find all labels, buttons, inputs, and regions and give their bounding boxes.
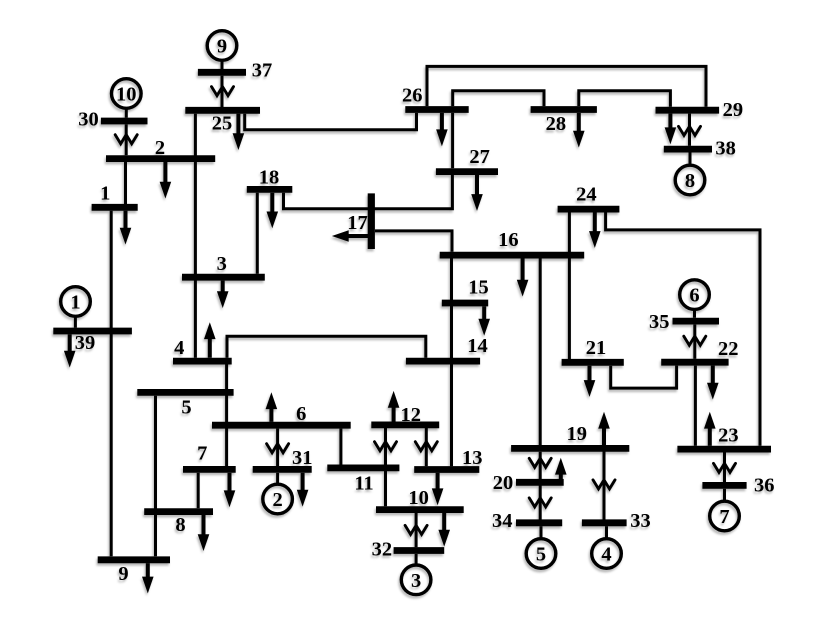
wire generator lead G1-39 (74, 316, 77, 328)
wire line 24-23 (right loop) (606, 212, 760, 445)
load arrow bus 21 (584, 366, 596, 397)
bus 27 (436, 146, 498, 171)
injection arrow line 33-19 flow (598, 412, 610, 446)
wire line 28-29 (579, 91, 671, 107)
svg-text:1: 1 (100, 183, 110, 205)
load arrow bus 39 (64, 334, 76, 367)
injection arrow bus 6 (266, 392, 278, 422)
wire line 23-36 (through transformer) (723, 453, 726, 483)
transformer T10-32 (zigzag) (405, 525, 427, 534)
bus 9 (98, 560, 170, 585)
wire line 10-32 (through transformer) (415, 513, 418, 547)
load arrow bus 2 (160, 162, 172, 199)
svg-text:36: 36 (754, 474, 775, 496)
svg-text:8: 8 (175, 514, 185, 536)
svg-text:7: 7 (197, 442, 207, 464)
bus 5 (137, 392, 233, 418)
bus 22 (661, 338, 738, 362)
svg-text:2: 2 (155, 137, 165, 159)
wire line 29-38 (through transformer) (688, 114, 691, 146)
bus 17 (vertical bar) (347, 193, 371, 249)
svg-text:14: 14 (467, 335, 488, 357)
svg-text:29: 29 (723, 99, 744, 121)
generator G10 (112, 79, 142, 109)
svg-text:23: 23 (718, 424, 739, 446)
svg-text:4: 4 (601, 544, 611, 566)
transformer T12-13 (zigzag) (415, 442, 437, 451)
load arrow bus 10 (438, 513, 450, 547)
svg-text:4: 4 (174, 337, 184, 359)
wire line 22-23 (694, 366, 697, 446)
bus 37 (198, 60, 272, 82)
wire generator lead G4-33 (605, 526, 608, 539)
bus 38 (664, 138, 736, 160)
svg-text:37: 37 (252, 60, 273, 82)
svg-text:21: 21 (586, 337, 607, 359)
bus 29 (656, 99, 744, 121)
svg-text:12: 12 (400, 404, 421, 426)
wire line 25-26 (245, 113, 417, 130)
wire generator lead G6-35 (693, 309, 696, 318)
wire line 1-39-9 (110, 211, 113, 557)
bus 23 (677, 424, 771, 449)
load arrow bus 18 (267, 193, 279, 229)
svg-text:33: 33 (630, 510, 651, 532)
bus 24 (558, 184, 620, 210)
bus 4 (173, 337, 232, 361)
wire line 6-31 (through transformer) (276, 429, 279, 467)
wire line 30-2 (through transformer) (125, 124, 128, 155)
svg-text:35: 35 (649, 311, 670, 333)
svg-text:24: 24 (576, 184, 597, 206)
svg-text:1: 1 (70, 292, 80, 314)
wire line 27-17 and 18-17 (284, 175, 453, 209)
generator G5 (526, 539, 556, 569)
transformer T19-33 (zigzag) (593, 480, 615, 489)
svg-text:9: 9 (118, 563, 128, 585)
wire line 17-16 (375, 231, 452, 252)
load arrow bus 29 (665, 114, 677, 145)
svg-text:7: 7 (719, 506, 729, 528)
injection arrow bus 23 (704, 412, 716, 446)
generator G7 (710, 501, 740, 531)
svg-text:38: 38 (715, 138, 736, 160)
bus 30 (78, 109, 147, 131)
bus 28 (531, 110, 597, 136)
generator G4 (592, 539, 622, 569)
wire line 3-18 (256, 193, 259, 274)
svg-text:27: 27 (469, 146, 490, 168)
bus 15 (442, 277, 489, 303)
wire line 25-2-3-4 column (194, 114, 197, 358)
wire line 35-22 (through transformer) (693, 325, 696, 359)
wire generator lead G9-37 (221, 60, 224, 69)
svg-text:9: 9 (217, 36, 227, 58)
wire line 21-22 link (611, 366, 677, 389)
wire line 26-27 (451, 113, 454, 168)
bus 11 (327, 468, 399, 494)
svg-text:30: 30 (78, 109, 99, 131)
bus 31 (253, 447, 313, 470)
bus 25 (185, 110, 260, 134)
generator G3 (401, 565, 431, 595)
bus 35 (649, 311, 719, 333)
transformer T37-25 (zigzag) (212, 87, 234, 96)
bus 19 (511, 423, 629, 448)
wire line 6-11 (339, 429, 342, 465)
wire generator lead G10-30 (125, 108, 128, 118)
bus 26 (402, 85, 469, 110)
wire line 26-28 (453, 91, 544, 106)
injection arrow bus 4 (204, 322, 216, 357)
load arrow bus 31 (297, 473, 309, 507)
bus 32 (372, 538, 445, 560)
bus 6 (212, 403, 351, 425)
bus 20 (493, 472, 564, 494)
svg-text:6: 6 (296, 403, 306, 425)
load arrow bus 3 (217, 281, 229, 308)
transformer T29-38 (zigzag) (679, 126, 701, 135)
bus 10 (376, 487, 464, 510)
wire line 2-1 (124, 162, 127, 204)
svg-text:19: 19 (567, 423, 588, 445)
svg-text:3: 3 (411, 570, 421, 592)
svg-text:10: 10 (116, 84, 137, 106)
generator G9 (207, 31, 237, 61)
svg-text:11: 11 (354, 472, 373, 494)
injection arrow bus 20 (555, 458, 567, 480)
svg-text:13: 13 (462, 447, 483, 469)
wire generator lead G7-36 (723, 489, 726, 502)
bus 12 (371, 404, 439, 426)
bus 36 (702, 474, 774, 496)
bus 14 (406, 335, 488, 361)
load arrow bus 8 (198, 515, 210, 551)
load arrow bus 25 (233, 114, 245, 150)
svg-text:28: 28 (546, 113, 567, 135)
bus 8 (144, 512, 213, 536)
load arrow bus 15 (478, 306, 490, 335)
svg-text:20: 20 (493, 472, 514, 494)
bus 21 (562, 337, 624, 362)
transformer T19-20 (zigzag) (529, 458, 551, 467)
svg-text:2: 2 (272, 489, 282, 511)
load arrow bus 22 (707, 366, 719, 400)
transformer T35-22 (zigzag) (684, 336, 706, 345)
svg-text:22: 22 (718, 338, 739, 360)
svg-text:6: 6 (689, 285, 699, 307)
wire generator lead G5-34 (540, 526, 543, 539)
load arrow line 13-10 flow (432, 473, 444, 505)
svg-text:26: 26 (402, 85, 423, 107)
bus 13 (414, 447, 482, 470)
transformer T6-31 (zigzag) (267, 444, 289, 453)
svg-text:34: 34 (492, 510, 513, 532)
svg-text:31: 31 (292, 447, 313, 469)
svg-text:32: 32 (372, 538, 393, 560)
bus 1 (92, 183, 138, 208)
load arrow bus 16 (517, 259, 529, 297)
wire line 12-13 (through transformer) (425, 428, 428, 466)
wire line 12-11-10 column (through transformer) (384, 428, 387, 506)
load arrow bus 7 (224, 473, 236, 507)
svg-text:17: 17 (347, 212, 368, 234)
svg-text:39: 39 (75, 332, 96, 354)
wire generator lead G8-38 (689, 153, 692, 166)
svg-text:8: 8 (685, 170, 695, 192)
load arrow bus 17 (pointing left) (332, 230, 368, 242)
transformer T12-11 (zigzag) (375, 442, 397, 451)
bus 34 (492, 510, 562, 532)
bus 33 (582, 510, 651, 532)
svg-text:15: 15 (468, 277, 489, 299)
load arrow bus 1 (120, 211, 132, 245)
wire line 26-29 (427, 66, 706, 106)
transformer T20-34 (zigzag) (529, 498, 551, 507)
injection arrow bus 12 (388, 391, 400, 422)
svg-text:5: 5 (181, 397, 191, 419)
bus 39 (53, 331, 132, 354)
svg-text:5: 5 (536, 544, 546, 566)
bus 2 (106, 137, 215, 159)
wire line 7-8 (197, 473, 200, 508)
wire line 4-5-6-7 column (225, 365, 228, 467)
generator G2 (263, 484, 293, 514)
svg-text:10: 10 (408, 487, 429, 509)
transformer T30-2 (zigzag) (115, 135, 137, 144)
generator G8 (675, 165, 705, 195)
svg-text:18: 18 (259, 167, 280, 189)
load arrow bus 26 (436, 113, 448, 146)
load arrow bus 27 (471, 175, 483, 211)
wire generator lead G2-31 (276, 473, 279, 485)
wire line 37-25 (through transformer) (221, 76, 224, 107)
svg-text:3: 3 (217, 253, 227, 275)
wire line 19-20-34 column (through transformers) (539, 452, 542, 520)
wire generator lead G3-32 (415, 554, 418, 566)
wire line 16-19 (539, 259, 542, 446)
bus 7 (183, 442, 236, 469)
bus 16 (440, 229, 585, 255)
wire line 5-8-9 column (154, 396, 157, 557)
wire line 4-14 (227, 336, 426, 358)
svg-text:25: 25 (212, 113, 233, 135)
bus 3 (182, 253, 265, 277)
load arrow bus 9 (142, 563, 154, 593)
wire line 24-16-21 column (568, 212, 571, 359)
bus 18 (247, 167, 292, 190)
load arrow bus 24 (589, 212, 601, 248)
generator G1 (61, 287, 91, 317)
wire line 19-33 (through transformer) (603, 429, 606, 520)
transformer T23-36 (zigzag) (714, 463, 736, 472)
load arrow bus 28 (573, 113, 585, 148)
wire line 16-15-14-13 column (450, 259, 453, 467)
generator G6 (680, 280, 710, 310)
svg-text:16: 16 (498, 229, 519, 251)
